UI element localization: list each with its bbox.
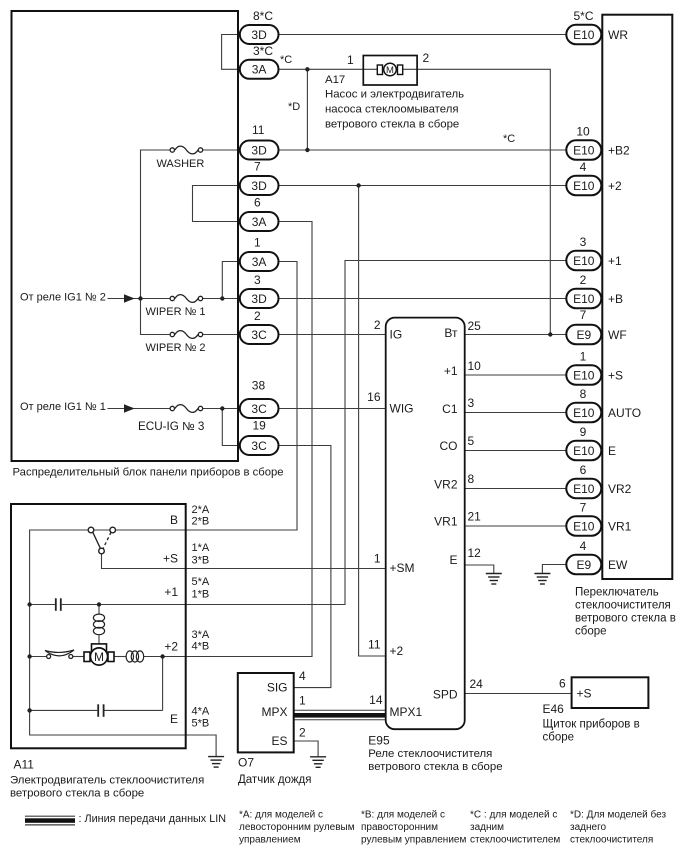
svg-text:3A: 3A	[252, 255, 267, 269]
svg-text:2: 2	[423, 51, 430, 65]
wire motor +1 capacitor left stub	[30, 604, 55, 606]
svg-text:Датчик дождя: Датчик дождя	[238, 774, 311, 786]
wire ECU-IG fuse to 3C(38)	[203, 408, 240, 410]
connector E10 pin 9 (E)	[566, 441, 601, 460]
svg-text:насоса стеклоомывателя: насоса стеклоомывателя	[325, 104, 459, 116]
svg-text:+2: +2	[608, 179, 622, 193]
svg-text:Вт: Вт	[444, 326, 458, 340]
svg-text:2: 2	[299, 726, 306, 740]
connector 3D pin 8*C	[240, 25, 279, 44]
wire 3C(19) riser down to O7 SIG	[279, 446, 331, 688]
wire 3D(8*C) to E10 WR	[279, 34, 567, 36]
wiper motor A11 box	[11, 504, 186, 748]
svg-text:3C: 3C	[251, 402, 267, 416]
capacitor on bottom row	[98, 704, 103, 717]
svg-text:VR2: VR2	[434, 478, 458, 492]
connector 3C pin 19	[240, 436, 279, 455]
wire relay CO to E10 E	[465, 450, 567, 452]
wire relay VR2 to E10 VR2	[465, 488, 567, 490]
fuse WIPER No1	[170, 295, 203, 303]
svg-text:+1: +1	[608, 254, 622, 268]
wire IG1 No1 feed	[108, 408, 171, 410]
svg-text:стеклоочистителя: стеклоочистителя	[570, 835, 653, 846]
svg-text:3A: 3A	[252, 215, 267, 229]
svg-text:8: 8	[580, 387, 587, 401]
svg-text:3: 3	[254, 273, 261, 287]
svg-text:E10: E10	[573, 179, 595, 193]
svg-text:3C: 3C	[251, 328, 267, 342]
O7 terminal names and pins	[261, 681, 287, 749]
svg-text:E9: E9	[576, 558, 591, 572]
svg-text:E10: E10	[573, 482, 595, 496]
fuse WASHER	[170, 146, 203, 154]
svg-text:WIPER № 2: WIPER № 2	[145, 342, 205, 354]
A11 pin labels	[192, 504, 210, 730]
A17 pin numbers and label	[325, 51, 464, 131]
fuse WIPER No2	[170, 331, 203, 339]
svg-text:3*C: 3*C	[253, 44, 273, 58]
connector E10 pin 7 (VR1)	[566, 516, 601, 535]
svg-text:16: 16	[367, 390, 381, 404]
svg-text:E10: E10	[573, 292, 595, 306]
svg-text:MPX1: MPX1	[390, 705, 423, 719]
label E95 relay	[368, 734, 502, 774]
feed labels	[20, 292, 106, 414]
wiper relay E95 box	[386, 318, 465, 730]
svg-text:VR2: VR2	[608, 482, 632, 496]
svg-text:От реле IG1 № 2: От реле IG1 № 2	[20, 292, 106, 304]
wire IG1 No2 feed	[108, 298, 171, 300]
svg-text:2: 2	[254, 309, 261, 323]
svg-text:B: B	[170, 513, 178, 527]
svg-text:E10: E10	[573, 254, 595, 268]
svg-text:сборе: сборе	[575, 626, 607, 638]
svg-text:+S: +S	[163, 552, 178, 566]
svg-text:3C: 3C	[251, 439, 267, 453]
connector E10 pin 8 (AUTO)	[566, 403, 601, 422]
svg-text:1: 1	[580, 350, 587, 364]
wire WIPER1 fuse to 3D(3)	[203, 298, 240, 300]
svg-text:3: 3	[468, 396, 475, 410]
connector E10 pin 1 (+S)	[566, 365, 601, 384]
svg-text:10: 10	[576, 125, 590, 139]
svg-text:6: 6	[559, 677, 566, 691]
svg-text:3*A: 3*A	[192, 629, 210, 641]
svg-text:CO: CO	[440, 439, 458, 453]
svg-text:+S: +S	[577, 687, 592, 701]
svg-text:*C: *C	[280, 54, 292, 66]
wire motor right bracket to coil	[114, 656, 126, 658]
connector 3A pin 6	[240, 212, 279, 231]
svg-text:Распределительный блок панели: Распределительный блок панели приборов в…	[13, 467, 284, 479]
label O7 rain sensor	[238, 756, 311, 787]
svg-text:WIG: WIG	[390, 402, 414, 416]
wire WIPER2 fuse to 3C(2)	[203, 334, 240, 336]
svg-text:стеклоочистителем: стеклоочистителем	[470, 835, 560, 846]
wiper switch box	[602, 15, 672, 579]
wire +2 junction riser to bottom capacitor row	[162, 657, 164, 711]
svg-text:*B: для моделей с: *B: для моделей с	[361, 810, 445, 821]
svg-text:E46: E46	[543, 702, 565, 716]
svg-text:ES: ES	[271, 734, 287, 748]
wire brush to motor left bracket	[73, 656, 84, 658]
svg-text:: Линия передачи данных LIN: : Линия передачи данных LIN	[79, 813, 227, 825]
wire E9 EW to ground	[542, 565, 566, 574]
svg-text:А17: А17	[325, 74, 345, 86]
svg-text:E10: E10	[573, 406, 595, 420]
wire jumper 3D(7) to 3A(6)	[193, 186, 241, 222]
connector 3C pin 2	[240, 325, 279, 344]
svg-text:5*B: 5*B	[192, 718, 210, 730]
svg-text:WF: WF	[608, 328, 627, 342]
svg-text:6: 6	[580, 463, 587, 477]
svg-text:IG: IG	[390, 328, 403, 342]
svg-text:11: 11	[252, 123, 265, 137]
svg-text:14: 14	[369, 693, 383, 707]
svg-text:9: 9	[580, 425, 587, 439]
ground symbol O7 ES	[310, 757, 326, 768]
ground symbol relay E	[486, 574, 502, 585]
svg-text:От реле IG1 № 1: От реле IG1 № 1	[20, 401, 106, 413]
connector E10 pin 4 (+2)	[566, 176, 601, 195]
connector 3D pin 3	[240, 289, 279, 308]
wire 3D(11) to E10 +B2	[279, 149, 567, 151]
svg-text:ветрового стекла в: ветрового стекла в	[575, 613, 676, 625]
junction block box	[12, 11, 239, 461]
svg-text:Электродвигатель стеклоочистит: Электродвигатель стеклоочистителя	[10, 775, 204, 787]
connector 3C pin 38	[240, 399, 279, 418]
svg-text:+2: +2	[390, 644, 404, 658]
svg-text:E: E	[170, 712, 178, 726]
svg-text:MPX: MPX	[261, 705, 287, 719]
svg-text:1: 1	[254, 236, 261, 250]
svg-text:E10: E10	[573, 519, 595, 533]
wire 3C(38) to relay WIG	[279, 408, 386, 410]
svg-text:4: 4	[299, 669, 306, 683]
svg-text:12: 12	[468, 546, 482, 560]
rain sensor O7 box	[238, 673, 294, 752]
svg-text:Насос и электродвигатель: Насос и электродвигатель	[325, 89, 464, 101]
svg-text:3D: 3D	[251, 179, 267, 193]
svg-text:M: M	[94, 650, 104, 664]
brush contact circles	[47, 655, 51, 659]
svg-text:+SM: +SM	[390, 561, 415, 575]
svg-text:рулевым управлением: рулевым управлением	[361, 835, 466, 846]
svg-text:3: 3	[580, 235, 587, 249]
connector 3D pin 11	[240, 141, 279, 160]
instrument cluster E46 box	[572, 677, 649, 708]
svg-text:+2: +2	[164, 640, 178, 654]
connector E9 pin 4 (EW)	[566, 555, 601, 574]
svg-text:1*A: 1*A	[192, 542, 210, 554]
footnote D	[570, 809, 666, 846]
connector E10 pin 3 (+1)	[566, 251, 601, 270]
connector E9 pin 7 (WF)	[566, 325, 601, 344]
pin labels of junction block connectors	[252, 9, 274, 433]
svg-text:ECU-IG № 3: ECU-IG № 3	[138, 420, 204, 433]
svg-text:E10: E10	[573, 444, 595, 458]
svg-text:*D: Для моделей без: *D: Для моделей без	[570, 809, 666, 821]
svg-text:7: 7	[580, 308, 587, 322]
wire ECU junction riser to 3C(19)	[222, 409, 240, 446]
washer pump motor M symbol (A17)	[377, 63, 402, 76]
wiper motor M symbol (A11)	[84, 644, 114, 665]
svg-text:заднего: заднего	[570, 822, 606, 833]
capacitor C (noise) on +1 row	[56, 598, 61, 611]
svg-text:11: 11	[368, 638, 381, 652]
connector E10 pin 2 (+B)	[566, 289, 601, 308]
svg-text:EW: EW	[608, 558, 628, 572]
wire 3A(6) riser down to motor +2	[163, 222, 312, 657]
svg-text:6: 6	[254, 196, 261, 210]
arrow feed IG1 No1	[124, 404, 135, 412]
svg-text:7: 7	[580, 501, 587, 515]
wire *D branch	[306, 69, 308, 150]
svg-text:25: 25	[468, 319, 482, 333]
svg-text:4*A: 4*A	[192, 706, 210, 718]
svg-text:5: 5	[468, 434, 475, 448]
legend LIN symbol	[25, 816, 75, 825]
wire 3A(1) left stub to WIPER1 junction	[222, 262, 240, 299]
svg-text:8*C: 8*C	[253, 9, 273, 23]
wire 3C(2) to relay IG	[279, 334, 386, 336]
svg-text:+S: +S	[608, 368, 623, 382]
wire relay E pin12 to ground	[465, 565, 494, 574]
wire relay Vt to E9 WF	[465, 334, 567, 336]
connector 3A pin 3*C	[240, 60, 279, 79]
wire switch common riser and +S row to relay +SM	[102, 554, 386, 569]
footnote C	[470, 810, 560, 846]
svg-text:+B2: +B2	[608, 143, 630, 157]
svg-text:5*C: 5*C	[573, 9, 593, 23]
E46 terminal and labels	[543, 677, 640, 744]
svg-text:правосторонним: правосторонним	[361, 822, 438, 833]
connector 3D pin 7	[240, 176, 279, 195]
svg-text:19: 19	[253, 419, 267, 433]
label A11 motor	[10, 758, 204, 800]
svg-text:+1: +1	[164, 585, 178, 599]
wire O7 ES to ground	[294, 741, 318, 757]
svg-text:M: M	[386, 65, 394, 76]
svg-text:C1: C1	[442, 402, 458, 416]
relay pin numbers right	[468, 319, 484, 691]
svg-text:сборе: сборе	[543, 732, 575, 744]
svg-text:3A: 3A	[252, 63, 267, 77]
svg-text:ветрового стекла в сборе: ветрового стекла в сборе	[325, 119, 459, 131]
brush plate arc left of motor	[45, 650, 74, 656]
wire bottom capacitor row right	[105, 709, 163, 711]
svg-text:WASHER: WASHER	[156, 158, 204, 170]
wire motor row left segment	[30, 656, 47, 658]
arrow feed IG1 No2	[124, 294, 135, 302]
wire E10 +1 riser down to motor +1 row	[62, 261, 567, 605]
svg-text:4: 4	[580, 160, 587, 174]
svg-text:WIPER № 1: WIPER № 1	[145, 306, 205, 318]
svg-text:2: 2	[580, 273, 587, 287]
svg-text:3D: 3D	[251, 143, 267, 157]
svg-text:E: E	[608, 444, 616, 458]
wire relay SPD to E46	[465, 693, 572, 695]
asterisk notes on wires	[280, 54, 515, 145]
fuse names	[138, 158, 206, 433]
footnote B	[361, 810, 466, 846]
svg-text:*A: для моделей с: *A: для моделей с	[239, 810, 323, 821]
svg-text:7: 7	[254, 160, 261, 174]
terminal names in wiper switch	[608, 28, 641, 572]
svg-text:24: 24	[470, 677, 484, 691]
wire WASHER fuse left stub, riser, WIPER2 stub	[141, 150, 171, 335]
wire WASHER fuse to 3D(11)	[203, 149, 240, 151]
svg-text:VR1: VR1	[434, 515, 458, 529]
svg-text:левосторонним рулевым: левосторонним рулевым	[239, 822, 355, 833]
wire 3D(7) to E10 +2	[279, 185, 567, 187]
svg-text:*C: *C	[503, 133, 515, 145]
svg-text:E: E	[449, 553, 457, 567]
svg-text:38: 38	[252, 379, 266, 393]
svg-text:4*B: 4*B	[192, 641, 210, 653]
svg-text:VR1: VR1	[608, 519, 632, 533]
svg-text:10: 10	[468, 359, 482, 373]
svg-text:Щиток приборов в: Щиток приборов в	[543, 719, 640, 731]
svg-text:1*B: 1*B	[192, 589, 210, 601]
svg-text:Переключатель: Переключатель	[575, 587, 659, 599]
ground symbol motor E	[208, 757, 224, 768]
svg-text:E9: E9	[576, 328, 591, 342]
svg-text:3D: 3D	[251, 292, 267, 306]
wire bottom capacitor row left	[30, 709, 98, 711]
svg-text:A11: A11	[14, 758, 35, 772]
relay terminal names	[390, 328, 423, 720]
relay pin numbers left	[367, 318, 383, 707]
svg-text:E10: E10	[573, 368, 595, 382]
svg-text:AUTO: AUTO	[608, 406, 641, 420]
svg-text:E10: E10	[573, 28, 595, 42]
wire +2 net riser to relay +2 pin11	[359, 186, 386, 657]
svg-text:3D: 3D	[251, 28, 267, 42]
svg-text:ветрового стекла в сборе: ветрового стекла в сборе	[368, 761, 502, 773]
svg-text:E10: E10	[573, 143, 595, 157]
ground symbol EW	[534, 574, 550, 585]
svg-text:21: 21	[468, 510, 482, 524]
svg-text:E95: E95	[368, 734, 390, 748]
svg-text:2*A: 2*A	[192, 504, 210, 516]
svg-text:+B: +B	[608, 292, 623, 306]
svg-text:1: 1	[347, 53, 354, 67]
wire armature coil column	[98, 605, 100, 615]
wire coil to +2 junction	[144, 656, 163, 658]
svg-text:SPD: SPD	[433, 688, 458, 702]
svg-text:*C : для моделей с: *C : для моделей с	[470, 810, 557, 821]
svg-text:стеклоочистителя: стеклоочистителя	[575, 600, 671, 612]
wire jumper 3D(8*C) to 3A(3*C)	[222, 35, 240, 70]
fuse ECU-IG No3	[170, 405, 203, 413]
footnote A	[239, 810, 355, 846]
svg-text:управлением: управлением	[239, 835, 301, 846]
connector E10 pin 5*C (WR)	[566, 25, 601, 44]
svg-text:3*B: 3*B	[192, 555, 210, 567]
wire relay +1 to E10 +S	[465, 374, 567, 376]
wire 3D(3) to E10 +B	[279, 298, 567, 300]
svg-text:2*B: 2*B	[192, 516, 210, 528]
washer pump A17 box	[363, 56, 417, 86]
svg-text:Реле стеклоочистителя: Реле стеклоочистителя	[368, 748, 492, 760]
park switch contacts in A11	[88, 527, 115, 554]
svg-text:8: 8	[468, 472, 475, 486]
label switch assembly	[575, 587, 676, 638]
svg-text:2: 2	[374, 318, 381, 332]
choke coil (horizontal, right of motor)	[126, 651, 144, 662]
wire relay VR1 to E10 VR1	[465, 525, 567, 527]
svg-text:+1: +1	[444, 364, 458, 378]
svg-text:1: 1	[299, 694, 306, 708]
wire 3A(3*C) to A17 pin1, pin2 over to WF net	[279, 69, 551, 334]
svg-text:O7: O7	[238, 756, 254, 770]
svg-text:задним: задним	[470, 822, 504, 833]
svg-text:*D: *D	[288, 101, 300, 113]
svg-text:1: 1	[374, 552, 381, 566]
svg-text:5*A: 5*A	[192, 576, 210, 588]
wire relay C1 to E10 AUTO	[465, 412, 567, 414]
svg-text:WR: WR	[608, 28, 628, 42]
svg-text:ветрового стекла в сборе: ветрового стекла в сборе	[10, 788, 144, 800]
LIN bus O7 MPX to relay MPX1	[294, 710, 386, 720]
connector E10 pin 10 (+B2)	[566, 140, 601, 159]
A11 terminal names	[163, 513, 178, 726]
wire 3A(1) to motor B row, left rail, E row to ground	[30, 262, 297, 757]
svg-text:4: 4	[580, 539, 587, 553]
svg-text:SIG: SIG	[267, 681, 288, 695]
connector 3A pin 1	[240, 252, 279, 271]
pin labels of switch connectors	[573, 9, 593, 553]
connector E10 pin 6 (VR2)	[566, 479, 601, 498]
armature choke coil (vertical)	[93, 614, 104, 635]
